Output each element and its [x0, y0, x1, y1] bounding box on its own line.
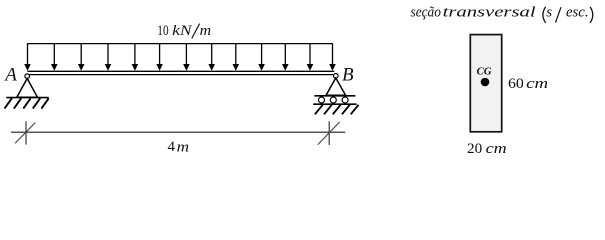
dimension tick slash at B: [318, 122, 340, 145]
ground hatching at A: [5, 98, 49, 108]
distributed load arrows (13 arrows): [24, 44, 336, 71]
svg-text:m: m: [200, 23, 212, 39]
ground hatching at B: [315, 105, 359, 115]
dimension tick at A (vertical): [25, 121, 27, 144]
node label A: [3, 64, 17, 85]
cross-section rectangle: [470, 35, 501, 132]
dimension tick slash at A: [15, 123, 35, 144]
beam (double line): [28, 71, 335, 74]
svg-text:cm: cm: [486, 141, 507, 157]
dimension tick at B (vertical): [328, 121, 330, 145]
dimension label 4m: [168, 139, 190, 155]
rollers at B: [319, 97, 349, 103]
svg-text:B: B: [342, 64, 354, 85]
svg-text:m: m: [177, 139, 190, 155]
svg-text:CG: CG: [477, 66, 492, 78]
svg-text:s: s: [546, 5, 552, 21]
roller support upper line at B: [314, 95, 355, 97]
pin support triangle at A: [17, 78, 38, 97]
pin circle at B: [334, 74, 339, 79]
roller support triangle at B: [326, 78, 346, 95]
distributed load top line: [27, 43, 332, 45]
svg-text:cm: cm: [526, 76, 548, 92]
node label B: [342, 64, 354, 85]
svg-text:10: 10: [157, 23, 168, 39]
svg-text:60: 60: [508, 76, 524, 92]
svg-text:kN: kN: [172, 23, 193, 39]
centroid label CG: [477, 66, 492, 78]
svg-text:4: 4: [168, 139, 176, 155]
centroid dot: [481, 78, 490, 87]
svg-text:A: A: [3, 64, 17, 85]
dimension line: [11, 131, 345, 133]
section title: secao transversal (s / esc.): [411, 5, 593, 23]
distributed load label 10kN/m: [157, 23, 211, 39]
svg-text:seção: seção: [411, 5, 442, 21]
svg-text:esc.: esc.: [566, 5, 589, 21]
roller support lower line at B: [313, 103, 356, 105]
dimension label 60cm: [508, 76, 548, 92]
svg-text:20: 20: [467, 141, 482, 157]
pin circle at A: [25, 74, 30, 79]
ground line at A: [6, 97, 48, 99]
svg-text:transversal: transversal: [443, 5, 536, 21]
dimension label 20cm: [467, 141, 507, 157]
